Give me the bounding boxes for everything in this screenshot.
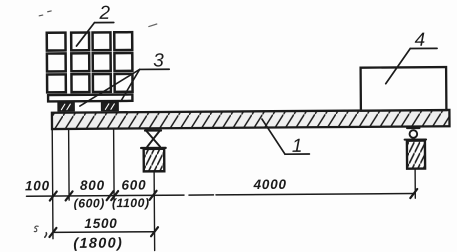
svg-text:(1800): (1800) — [73, 236, 123, 252]
svg-text:4000: 4000 — [253, 177, 287, 192]
svg-text:3: 3 — [153, 50, 164, 71]
svg-text:4: 4 — [415, 30, 426, 51]
svg-text:(600): (600) — [74, 196, 105, 210]
svg-text:2: 2 — [98, 3, 110, 24]
svg-text:800: 800 — [80, 178, 105, 193]
svg-text:1500: 1500 — [84, 216, 117, 231]
svg-text:600: 600 — [121, 177, 146, 192]
svg-text:(1100): (1100) — [112, 196, 150, 210]
svg-text:100: 100 — [25, 178, 50, 193]
